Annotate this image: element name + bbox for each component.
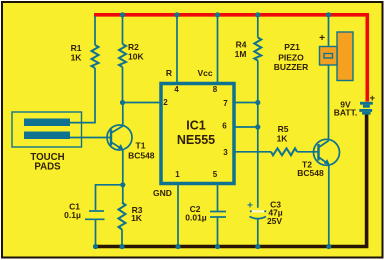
node: rail-pin4 bbox=[174, 12, 179, 17]
wire: pin 5 stub to C2 bbox=[217, 184, 219, 211]
svg-text:10K: 10K bbox=[128, 52, 144, 62]
svg-text:R4: R4 bbox=[236, 40, 247, 50]
node: rail-pin8 bbox=[215, 12, 220, 17]
resistor R5 bbox=[271, 148, 297, 155]
svg-text:T1: T1 bbox=[136, 141, 146, 151]
svg-text:R5: R5 bbox=[278, 124, 289, 134]
piezo buzzer PZ1 bbox=[320, 32, 354, 81]
svg-text:BC548: BC548 bbox=[297, 168, 324, 178]
svg-text:PADS: PADS bbox=[34, 162, 61, 173]
capacitor C2 bbox=[210, 212, 226, 247]
node: rail-buzzer bbox=[326, 12, 331, 17]
wire: pin 3 output bbox=[234, 151, 271, 153]
svg-text:2: 2 bbox=[163, 98, 168, 107]
svg-text:NE555: NE555 bbox=[177, 133, 215, 147]
svg-text:5: 5 bbox=[213, 170, 218, 179]
node: pin7-R4 bbox=[255, 100, 260, 105]
svg-text:1K: 1K bbox=[71, 53, 83, 63]
wire: pin 2 to junction bbox=[123, 102, 162, 104]
capacitor C3 (electrolytic) bbox=[250, 210, 267, 246]
wire: pin 6 to R4 node bbox=[234, 126, 258, 128]
node: pin1-ground bbox=[175, 244, 180, 249]
svg-text:0.1µ: 0.1µ bbox=[64, 210, 81, 220]
resistor R3 bbox=[119, 203, 126, 247]
svg-text:1: 1 bbox=[175, 170, 180, 179]
node: R2-pin2-T1 bbox=[120, 100, 125, 105]
svg-text:BATT.: BATT. bbox=[334, 108, 357, 118]
svg-text:+: + bbox=[370, 93, 376, 104]
resistor R4 bbox=[254, 16, 261, 208]
capacitor C1 bbox=[85, 211, 105, 247]
svg-text:8: 8 bbox=[213, 85, 218, 94]
svg-text:3: 3 bbox=[223, 148, 228, 157]
wire: pin 8 stub bbox=[217, 16, 219, 84]
svg-text:25V: 25V bbox=[267, 216, 282, 226]
svg-text:+: + bbox=[247, 201, 253, 212]
node: pin6-R4 bbox=[255, 124, 260, 129]
svg-text:1M: 1M bbox=[235, 49, 247, 59]
svg-text:Vcc: Vcc bbox=[197, 68, 212, 78]
svg-text:PIEZO: PIEZO bbox=[278, 53, 304, 63]
battery BATT 9V bbox=[359, 102, 373, 115]
svg-text:4: 4 bbox=[174, 85, 179, 94]
node: C2-ground bbox=[215, 244, 220, 249]
wire: pin 4 stub bbox=[176, 16, 178, 84]
svg-text:1K: 1K bbox=[277, 134, 289, 144]
svg-text:BC548: BC548 bbox=[128, 151, 155, 161]
node: rail-R2 bbox=[120, 12, 125, 17]
svg-text:PZ1: PZ1 bbox=[284, 42, 300, 52]
transistor T2 bbox=[314, 139, 340, 165]
IC1 NE555 box bbox=[161, 84, 234, 184]
wire: buzzer to T2 collector bbox=[328, 65, 330, 139]
svg-text:R2: R2 bbox=[128, 42, 139, 52]
node: T1 emitter-C1-R3 bbox=[120, 182, 125, 187]
resistor R2 bbox=[119, 16, 126, 103]
svg-text:6: 6 bbox=[222, 122, 227, 131]
wire: T1 collector bbox=[122, 103, 124, 127]
transistor T1 bbox=[107, 125, 132, 150]
wire: emitter node to C1 bbox=[96, 185, 123, 210]
node: rail-R4 bbox=[255, 12, 260, 17]
svg-text:+: + bbox=[319, 33, 325, 44]
svg-text:IC1: IC1 bbox=[186, 119, 206, 133]
wire: lower pad to T1 base bbox=[70, 137, 111, 139]
wire: pin 1 stub to ground bbox=[177, 184, 179, 247]
node: C1-ground bbox=[93, 244, 98, 249]
wire: rail to buzzer bbox=[328, 16, 330, 47]
node: R3-ground bbox=[119, 244, 124, 249]
svg-text:BUZZER: BUZZER bbox=[274, 62, 308, 72]
wire: +V red rail bbox=[94, 15, 367, 102]
touch pads bbox=[12, 112, 82, 147]
wire: T1 emitter down bbox=[122, 150, 124, 203]
svg-text:1K: 1K bbox=[131, 213, 143, 223]
svg-text:0.01µ: 0.01µ bbox=[185, 213, 207, 223]
resistor R1 bbox=[70, 16, 99, 123]
svg-text:GND: GND bbox=[153, 188, 172, 198]
svg-text:R1: R1 bbox=[71, 43, 82, 53]
node: T2 emitter-ground bbox=[326, 244, 331, 249]
svg-text:R: R bbox=[166, 68, 172, 78]
node: C3-ground bbox=[255, 244, 260, 249]
wire: T2 emitter to ground bus bbox=[328, 165, 330, 247]
wire: R5 to T2 base bbox=[297, 151, 319, 153]
wire: ground bus (black) bbox=[95, 115, 366, 247]
wire: pin 7 to R4 node bbox=[234, 102, 258, 104]
svg-text:7: 7 bbox=[223, 99, 228, 108]
